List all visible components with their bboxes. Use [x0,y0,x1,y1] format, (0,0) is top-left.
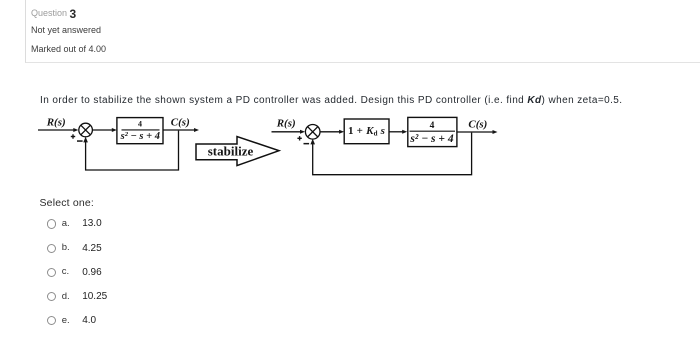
svg-text:stabilize: stabilize [208,144,254,159]
svg-text:C(s): C(s) [171,117,190,129]
svg-text:s² − s + 4: s² − s + 4 [409,133,453,145]
svg-text:R(s): R(s) [276,117,296,129]
svg-text:1 + Kd s: 1 + Kd s [348,125,385,138]
svg-text:s² − s + 4: s² − s + 4 [120,131,160,142]
svg-text:R(s): R(s) [46,117,66,129]
svg-text:4: 4 [138,119,142,128]
svg-text:C(s): C(s) [468,119,487,131]
svg-text:4: 4 [430,121,435,131]
